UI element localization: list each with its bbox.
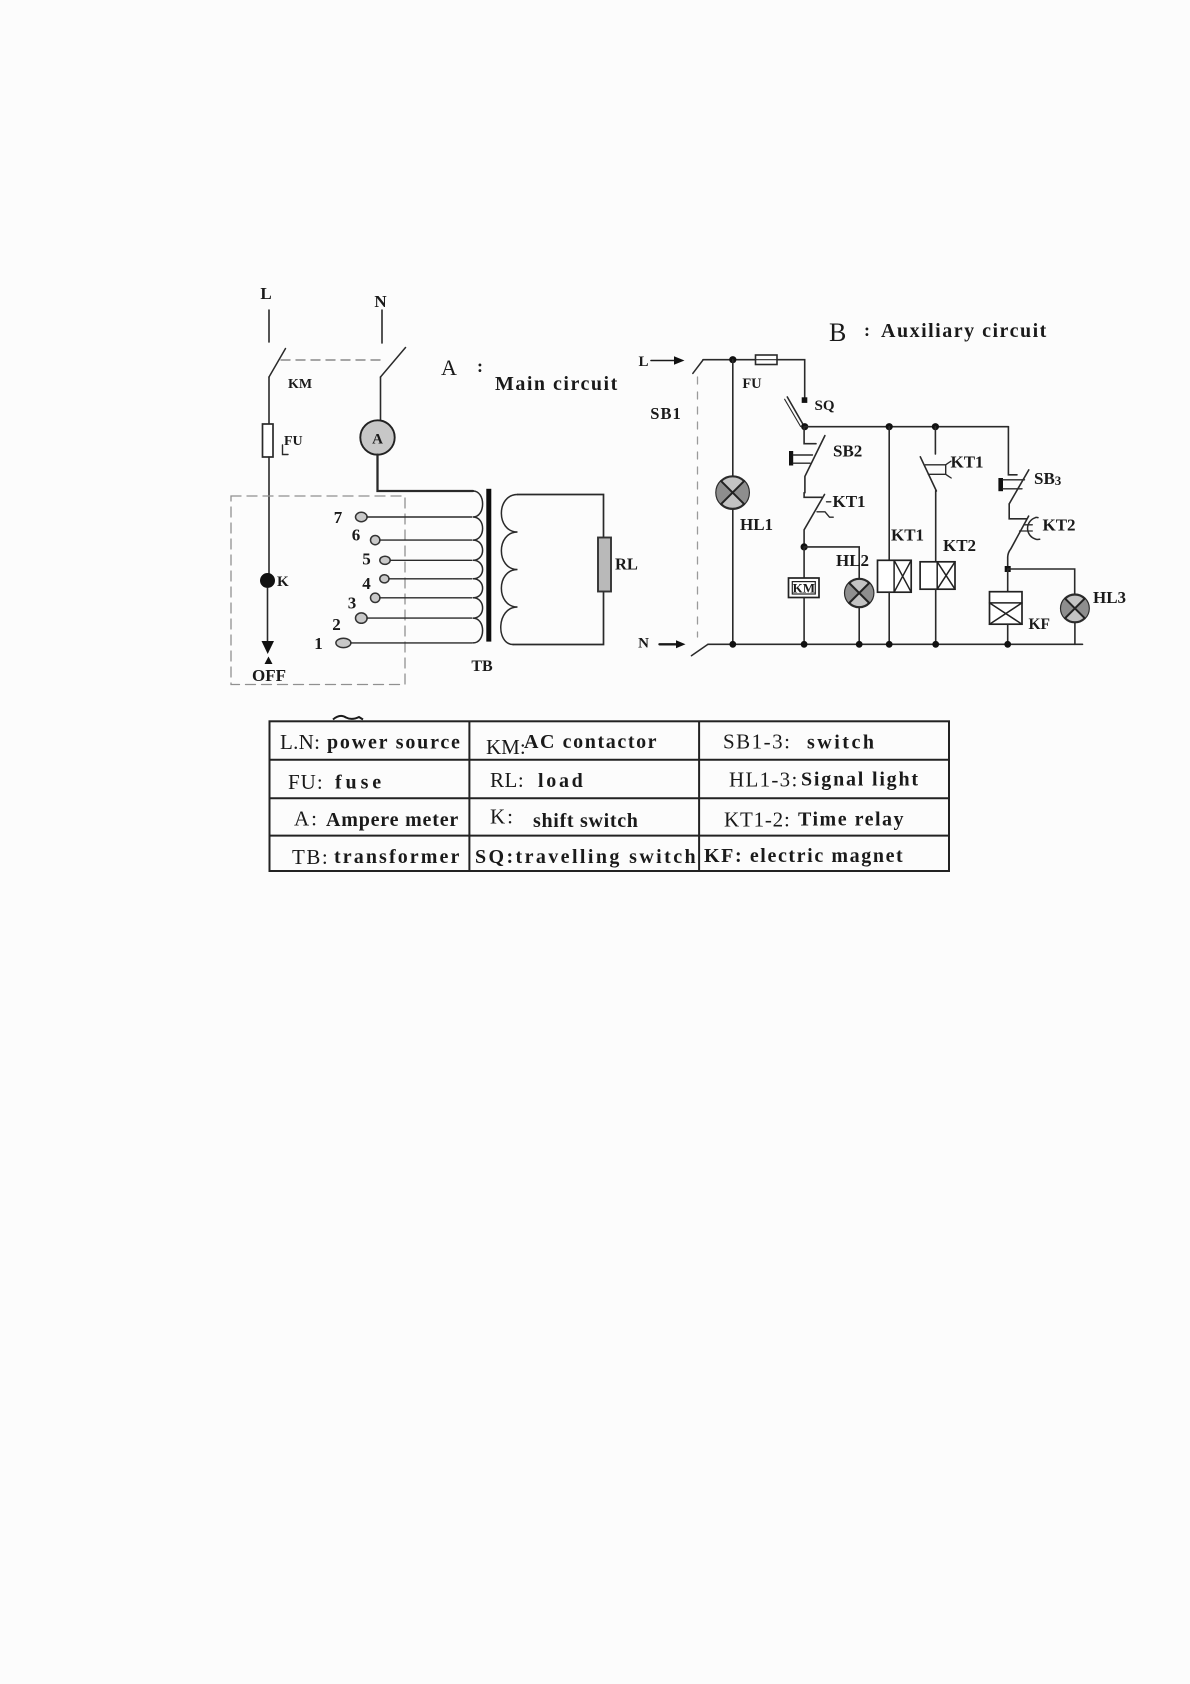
pushbutton SB3 actuator xyxy=(998,478,1003,491)
ampere meter A xyxy=(360,420,394,454)
bottom rail N xyxy=(708,643,1083,645)
svg-text:5: 5 xyxy=(362,550,371,569)
svg-text:HL1-3:: HL1-3: xyxy=(729,768,799,792)
branch SB3 wire top xyxy=(1008,427,1017,475)
wire node to KM coil xyxy=(803,547,805,578)
OFF arrow xyxy=(262,641,275,654)
table grid xyxy=(270,721,950,871)
fuse FU (aux) xyxy=(756,355,778,365)
wire ammeter to transformer xyxy=(378,455,474,491)
node bottom HL2 xyxy=(856,641,863,648)
svg-text:KT1: KT1 xyxy=(891,526,924,545)
switch SB1 top blade xyxy=(693,360,703,373)
label artifact mark xyxy=(283,445,289,455)
svg-text:TB:: TB: xyxy=(292,845,329,869)
switch SB1 bottom blade xyxy=(691,644,708,655)
svg-text:K: K xyxy=(277,574,289,590)
svg-text:L: L xyxy=(260,284,271,303)
wire N to ammeter xyxy=(380,377,382,421)
svg-text:Ampere meter: Ampere meter xyxy=(326,809,459,831)
svg-text:TB: TB xyxy=(471,658,493,675)
svg-text:switch: switch xyxy=(807,732,876,754)
node bottom KF xyxy=(1004,641,1011,648)
branch KT1 coil wire xyxy=(888,427,890,561)
svg-text:KM: KM xyxy=(288,377,312,392)
svg-text:KM: KM xyxy=(793,580,815,595)
svg-text:fuse: fuse xyxy=(335,772,385,794)
svg-text:SQ:travelling switch: SQ:travelling switch xyxy=(475,846,698,868)
svg-text:HL1: HL1 xyxy=(740,515,773,534)
svg-text:AC contactor: AC contactor xyxy=(524,731,658,753)
svg-text:KT2: KT2 xyxy=(1043,516,1076,535)
wire node to HL3 xyxy=(1008,569,1075,595)
svg-text:SB1-3:: SB1-3: xyxy=(723,730,792,754)
svg-text::: : xyxy=(864,320,870,340)
branch KT2 wire top xyxy=(934,427,936,454)
svg-text:Auxiliary circuit: Auxiliary circuit xyxy=(881,320,1048,342)
svg-text:1: 1 xyxy=(314,634,323,653)
svg-text:K:: K: xyxy=(490,805,515,829)
node junction KF/HL3 xyxy=(1005,566,1011,572)
wire K to OFF xyxy=(267,588,269,641)
AUX CIRCUIT B xyxy=(638,318,1126,656)
svg-text:KT1-2:: KT1-2: xyxy=(724,808,791,832)
LEGEND TABLE xyxy=(270,716,950,871)
wire HL1 to bottom xyxy=(732,509,734,644)
svg-text:power source: power source xyxy=(327,732,462,754)
KM linkage dashed xyxy=(281,359,384,361)
lamp HL2 xyxy=(845,579,873,607)
pushbutton SB2 blade xyxy=(805,436,825,493)
wire fuse to K xyxy=(268,457,270,574)
svg-text:KT2: KT2 xyxy=(943,536,976,555)
contactor contact KM pole L xyxy=(269,349,286,378)
svg-text:RL:: RL: xyxy=(490,768,524,792)
time contact KT1 NC xyxy=(804,493,822,498)
selector switch dashed box xyxy=(231,496,405,685)
fuse FU (main) xyxy=(263,424,274,457)
transformer TB secondary winding xyxy=(501,495,518,645)
wire KT1 NO to KT2 coil xyxy=(935,491,937,562)
svg-text:B: B xyxy=(829,318,846,347)
svg-text:2: 2 xyxy=(332,615,341,634)
wire node to HL2 xyxy=(804,547,859,579)
svg-text:A: A xyxy=(372,432,383,448)
svg-text:L: L xyxy=(638,354,648,370)
svg-text:A: A xyxy=(441,355,457,380)
svg-text:6: 6 xyxy=(352,526,361,545)
transformer TB primary winding xyxy=(473,491,483,643)
wire N lead xyxy=(381,310,383,343)
node bottom KT2 xyxy=(932,641,939,648)
wire N arrow xyxy=(660,643,677,645)
wire L lead xyxy=(268,310,270,342)
svg-text:SB2: SB2 xyxy=(833,442,862,461)
svg-text:SQ: SQ xyxy=(815,398,835,414)
node junction at HL1 branch xyxy=(729,356,736,363)
pushbutton SB2 actuator xyxy=(789,451,793,466)
node bottom KM xyxy=(801,641,808,648)
svg-text:KT1: KT1 xyxy=(833,492,866,511)
top rail of branches xyxy=(805,426,1009,428)
electric magnet KF xyxy=(990,592,1023,625)
svg-text:7: 7 xyxy=(334,508,343,527)
lamp HL3 xyxy=(1061,595,1089,623)
svg-text:transformer: transformer xyxy=(334,846,462,868)
scribble mark above table xyxy=(333,716,363,720)
node rail KT1 xyxy=(886,423,893,430)
svg-text:N: N xyxy=(638,636,649,652)
svg-text:FU: FU xyxy=(284,434,303,449)
secondary loop wires xyxy=(513,495,604,645)
wire KT2 coil to bottom xyxy=(935,589,937,644)
lamp HL1 branch wire xyxy=(732,360,734,477)
svg-text:HL2: HL2 xyxy=(836,551,869,570)
node junction KM/HL2 xyxy=(801,543,808,550)
shift switch K contact dot xyxy=(260,573,275,588)
wire KF to bottom xyxy=(1007,624,1009,644)
svg-text:KM:: KM: xyxy=(486,735,526,759)
wire fuse to SQ xyxy=(777,360,805,398)
time contact KT2 NC xyxy=(1009,504,1026,519)
transformer TB core xyxy=(486,489,491,642)
travelling switch SQ blade xyxy=(787,397,804,426)
top wire L rail xyxy=(703,359,756,361)
pushbutton SB3 blade xyxy=(1009,470,1029,504)
time relay coil KT2 xyxy=(920,562,955,589)
wire HL2 to bottom xyxy=(858,607,860,644)
svg-text:4: 4 xyxy=(362,574,371,593)
SB1 linkage dashed xyxy=(697,377,699,637)
svg-text:KF: KF xyxy=(1029,616,1051,633)
svg-text:Main circuit: Main circuit xyxy=(495,373,619,395)
wire KT1 coil to bottom xyxy=(888,592,890,644)
svg-text::: : xyxy=(477,356,483,376)
svg-text:SB1: SB1 xyxy=(650,404,681,423)
svg-text:KF: electric magnet: KF: electric magnet xyxy=(704,845,904,867)
lamp HL1 xyxy=(716,476,749,509)
branch SB2 wire top xyxy=(804,427,816,444)
svg-text:N: N xyxy=(374,292,387,311)
svg-text:3: 3 xyxy=(348,594,357,613)
svg-text:Time relay: Time relay xyxy=(798,809,905,831)
svg-text:KT1: KT1 xyxy=(951,453,984,472)
SQ terminal square xyxy=(802,397,808,403)
svg-text:load: load xyxy=(538,770,585,792)
wire L arrow xyxy=(651,360,674,362)
wire L to fuse xyxy=(268,377,270,424)
time contact KT1 NO xyxy=(920,457,936,491)
node rail junction xyxy=(801,423,808,430)
contactor contact KM pole N xyxy=(381,348,406,378)
svg-text:SB3: SB3 xyxy=(1034,469,1062,488)
svg-text:Signal light: Signal light xyxy=(801,769,920,791)
svg-text:HL3: HL3 xyxy=(1093,588,1126,607)
node rail KT2 xyxy=(932,423,939,430)
wire KM coil to bottom xyxy=(803,598,805,645)
svg-text:A:: A: xyxy=(294,807,319,831)
wire node to KF xyxy=(1007,569,1009,592)
svg-text:shift switch: shift switch xyxy=(533,810,639,832)
time relay coil KT1 xyxy=(878,560,912,592)
svg-text:L.N:: L.N: xyxy=(280,730,320,754)
MAIN CIRCUIT A xyxy=(231,284,638,685)
node bottom KT1 xyxy=(886,641,893,648)
load RL xyxy=(598,538,611,592)
contactor coil KM xyxy=(789,578,820,598)
svg-text:RL: RL xyxy=(615,555,638,574)
svg-text:FU: FU xyxy=(742,376,762,392)
node bottom HL1 xyxy=(729,641,736,648)
wire HL3 to bottom xyxy=(1074,622,1076,644)
svg-text:OFF: OFF xyxy=(252,666,286,685)
svg-text:FU:: FU: xyxy=(288,770,324,794)
